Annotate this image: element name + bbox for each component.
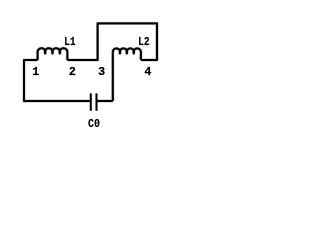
svg-text:4: 4 — [144, 65, 151, 79]
svg-text:L1: L1 — [64, 35, 76, 49]
svg-text:2: 2 — [69, 65, 76, 79]
svg-text:C0: C0 — [88, 117, 100, 131]
svg-text:1: 1 — [32, 65, 39, 79]
svg-text:3: 3 — [98, 65, 105, 79]
svg-text:L2: L2 — [138, 35, 150, 49]
